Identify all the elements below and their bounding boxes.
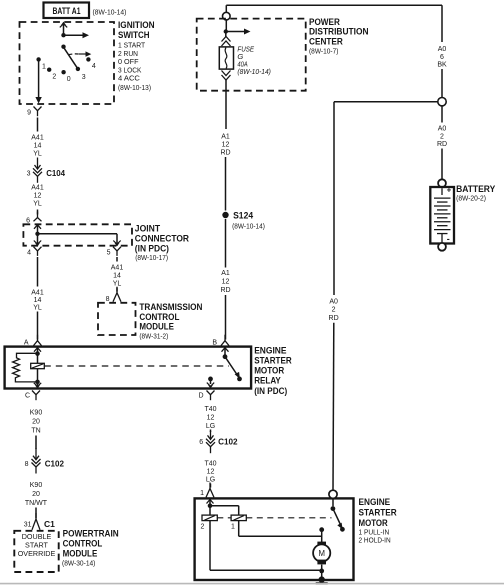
starter motor M1: [313, 544, 330, 561]
node PDC supply terminal circle: [223, 12, 231, 20]
pin 6 connector of joint connector: [26, 212, 41, 225]
page separator line: [0, 583, 504, 585]
wire label K90 20 TN/WT: [25, 482, 48, 507]
svg-text:4 ACC: 4 ACC: [118, 74, 140, 83]
wire A41 segment below pin 5: [116, 257, 118, 262]
svg-text:A0: A0: [438, 126, 447, 133]
powertrain control module title text: [62, 528, 119, 567]
svg-text:CONNECTOR: CONNECTOR: [135, 234, 190, 244]
svg-text:C: C: [25, 393, 30, 400]
svg-text:TRANSMISSION: TRANSMISSION: [139, 302, 202, 312]
svg-text:POWERTRAIN: POWERTRAIN: [63, 528, 119, 538]
svg-text:T40: T40: [204, 461, 216, 468]
svg-text:20: 20: [32, 419, 40, 426]
wire starter pin 1 entry: [207, 500, 214, 504]
svg-text:K90: K90: [30, 410, 43, 417]
svg-text:(8W-10-14): (8W-10-14): [232, 221, 265, 230]
wire segment to relay pin A: [37, 312, 39, 340]
resistor R1 (relay coil suppression): [13, 353, 38, 382]
wire label A41 14 YL (upper): [31, 135, 44, 158]
svg-text:IGNITION: IGNITION: [118, 20, 155, 30]
engine starter motor title text: [359, 497, 398, 545]
svg-text:C102: C102: [218, 436, 238, 446]
wire label T40 12 LG (upper): [204, 406, 216, 430]
svg-text:S124: S124: [233, 210, 253, 220]
label (8W-10-14) for BATT A1: [93, 8, 127, 17]
svg-text:C104: C104: [46, 168, 65, 178]
svg-text:TN: TN: [31, 428, 40, 435]
svg-text:(IN PDC): (IN PDC): [135, 244, 169, 254]
wire pull-in coil to motor: [239, 521, 322, 537]
wire A1 segment to splice: [225, 157, 227, 211]
pin 5 connector of joint connector: [107, 247, 121, 257]
svg-text:2: 2: [332, 307, 336, 314]
fuse G holder top chevrons: [222, 32, 231, 47]
pin 31 of powertrain control module: [24, 513, 55, 530]
pin D of starter relay: [198, 391, 214, 401]
svg-text:(IN PDC): (IN PDC): [254, 386, 287, 396]
svg-text:RD: RD: [220, 287, 230, 294]
wire PDC internal feed: [225, 20, 227, 32]
svg-text:ENGINE: ENGINE: [254, 346, 286, 356]
node ignition rotor pivot: [61, 45, 65, 49]
wire label A41 14 YL (left lower): [31, 290, 44, 312]
wire motor ground lead: [321, 565, 323, 578]
svg-text:CONTROL: CONTROL: [139, 312, 179, 322]
wire solenoid switch feed: [332, 498, 334, 506]
svg-text:A0: A0: [438, 46, 447, 53]
svg-text:DISTRIBUTION: DISTRIBUTION: [309, 26, 369, 36]
node starter motor feed contact: [319, 527, 324, 532]
wire A1 segment below fuse: [225, 80, 227, 129]
wire segment to PCM pin 31: [35, 508, 37, 519]
splice S124: [222, 210, 265, 230]
wire A0 2 RD long drop to starter: [333, 102, 335, 295]
svg-text:JOINT: JOINT: [135, 223, 161, 233]
svg-text:RD: RD: [437, 141, 447, 148]
relay switch blade: [225, 357, 240, 379]
svg-text:ENGINE: ENGINE: [359, 497, 391, 507]
engine starter motor relay box: [5, 347, 252, 389]
battery positive terminal circle: [438, 179, 446, 187]
svg-text:(8W-20-2): (8W-20-2): [456, 194, 486, 203]
connector C104: [27, 158, 66, 183]
connector C102 (middle): [199, 431, 238, 453]
svg-text:12: 12: [207, 415, 215, 422]
svg-text:1: 1: [200, 490, 204, 497]
svg-text:YL: YL: [33, 151, 42, 158]
wire relay pin C exit arrow: [34, 382, 41, 389]
wire joint connector branch to pin 4: [34, 234, 41, 247]
svg-text:BK: BK: [437, 62, 447, 69]
starter motor brush (bottom): [317, 560, 326, 565]
pin 8 of transmission control module: [106, 287, 121, 303]
battery B1 case: [430, 187, 454, 244]
wire ignition feed branch arrow right: [64, 32, 90, 38]
svg-text:2: 2: [52, 74, 56, 81]
node relay pin D contact: [208, 377, 213, 382]
svg-text:A1: A1: [221, 134, 230, 141]
wire label A41 14 YL (to TCM): [111, 265, 124, 288]
wire battery positive lead: [441, 106, 443, 179]
powertrain control module dashed box: [14, 531, 58, 572]
svg-text:BATT A1: BATT A1: [53, 6, 82, 17]
battery negative terminal circle: [438, 243, 446, 251]
svg-text:LG: LG: [206, 423, 215, 430]
battery title text: [456, 184, 496, 203]
node motor ground junction: [319, 569, 324, 574]
svg-text:(8W-31-2): (8W-31-2): [139, 331, 168, 340]
engine starter motor box: [195, 498, 354, 580]
svg-text:14: 14: [34, 143, 42, 150]
svg-text:A41: A41: [31, 185, 44, 192]
svg-text:MODULE: MODULE: [139, 322, 174, 332]
wire label A41 12 YL: [31, 185, 44, 208]
wire A0 2 RD continues to starter: [332, 323, 335, 491]
wire battery feed top horizontal: [226, 4, 442, 6]
fuse G label text: [237, 44, 271, 76]
wire label A1 12 RD (lower): [220, 270, 230, 294]
joint connector dashed box: [23, 224, 132, 245]
svg-text:+: +: [447, 186, 452, 195]
svg-text:K90: K90: [30, 482, 43, 489]
power distribution center title text: [309, 17, 369, 56]
transmission control module title text: [139, 302, 202, 341]
node relay blade rest contact: [237, 377, 242, 382]
svg-text:12: 12: [207, 469, 215, 476]
svg-text:CONTROL: CONTROL: [63, 538, 103, 548]
pin A of starter relay: [24, 335, 42, 347]
svg-text:OVERRIDE: OVERRIDE: [18, 549, 56, 558]
starter relay title text: [254, 346, 292, 397]
svg-text:CENTER: CENTER: [309, 36, 343, 46]
svg-text:(8W-10-7): (8W-10-7): [309, 47, 339, 56]
joint connector title text: [135, 223, 190, 262]
svg-text:4: 4: [92, 63, 96, 70]
node starter solenoid contact circle: [329, 490, 337, 498]
starter motor brush (top): [317, 542, 326, 547]
node joint connector junction: [35, 232, 39, 236]
ignition contact 2 (RUN): [47, 68, 56, 81]
svg-text:8: 8: [106, 296, 110, 303]
svg-text:12: 12: [222, 279, 230, 286]
node PDC feed junction: [224, 29, 228, 33]
wire motor feed: [321, 530, 323, 542]
wire ignition feed arrow to BATT A1: [60, 22, 67, 36]
wire PDC feed corner drop: [225, 5, 227, 12]
wire label A0 6 BK: [437, 46, 447, 69]
svg-text:14: 14: [113, 273, 121, 280]
node solenoid switch pivot: [331, 506, 336, 511]
svg-text:5: 5: [107, 250, 111, 257]
svg-text:C1: C1: [44, 519, 55, 529]
svg-text:(8W-30-14): (8W-30-14): [62, 559, 96, 568]
pin 4 connector of joint connector: [27, 247, 41, 257]
pin 1 of engine starter motor: [200, 483, 214, 498]
svg-text:A0: A0: [329, 298, 338, 305]
svg-text:M: M: [318, 549, 325, 558]
svg-text:9: 9: [27, 110, 31, 117]
svg-text:YL: YL: [113, 281, 122, 288]
starter solenoid switch blade: [333, 509, 343, 530]
svg-text:MOTOR: MOTOR: [359, 518, 389, 528]
ground G1 of starter motor: [316, 576, 328, 584]
wire K90 segment: [35, 436, 37, 450]
node relay coil bottom junction: [35, 380, 40, 385]
svg-text:0: 0: [67, 76, 71, 83]
wire relay pin A entry: [34, 347, 41, 353]
wire A1 segment below splice: [225, 219, 227, 268]
wire A41 segment below pin 9: [37, 118, 39, 132]
wire T40 segment: [210, 430, 212, 433]
wire PDC branch arrow right: [226, 29, 251, 35]
wire label A1 12 RD (upper): [220, 134, 230, 157]
wire branch to pull-in coil: [210, 506, 239, 515]
svg-text:(8W-10-17): (8W-10-17): [135, 253, 168, 262]
relay linkage dashed line: [44, 365, 229, 367]
wire A41 segment below pin 4: [37, 257, 39, 287]
svg-text:12: 12: [34, 193, 42, 200]
ignition contact 1 (START): [36, 57, 46, 70]
svg-text:RD: RD: [329, 315, 339, 322]
ignition contact 3 (LOCK): [76, 67, 86, 81]
hold-in coil 2: [201, 506, 218, 531]
ignition contact 0 (OFF): [61, 70, 70, 83]
wire relay pin D exit arrow: [207, 379, 214, 389]
ignition switch title text: [118, 20, 155, 92]
svg-text:6: 6: [440, 54, 444, 61]
svg-text:RD: RD: [220, 150, 230, 157]
svg-text:8: 8: [25, 461, 29, 468]
power distribution center dashed box: [197, 19, 306, 91]
wire A0 6 BK drop at right: [441, 5, 443, 42]
svg-text:4: 4: [27, 250, 31, 257]
wire relay pin B entry: [222, 347, 229, 357]
relay coil K1: [31, 354, 45, 382]
svg-text:A1: A1: [221, 270, 230, 277]
wire segment to joint connector: [37, 210, 39, 215]
svg-text:D: D: [198, 393, 203, 400]
wire segment above battery junction: [441, 69, 443, 98]
node relay coil top junction: [35, 351, 40, 356]
svg-text:3: 3: [27, 171, 31, 178]
svg-text:MOTOR: MOTOR: [254, 366, 284, 376]
svg-text:SWITCH: SWITCH: [118, 30, 150, 40]
battery polarity marks: [447, 186, 452, 244]
wire label T40 12 LG (lower): [204, 461, 216, 484]
svg-text:2 HOLD-IN: 2 HOLD-IN: [359, 535, 391, 544]
node relay common contact: [223, 354, 228, 359]
wire segment to starter pin 1: [210, 484, 212, 488]
pin B of starter relay: [212, 335, 229, 347]
svg-text:6: 6: [199, 439, 203, 446]
svg-text:1: 1: [42, 63, 46, 70]
ignition switch S1 dashed box: [20, 22, 115, 104]
connector C102 (left): [25, 448, 65, 474]
svg-text:20: 20: [32, 491, 40, 498]
wire ignition START output arrow down: [35, 62, 41, 104]
wire segment to TCM pin 8: [116, 288, 118, 292]
svg-text:31: 31: [24, 522, 32, 529]
svg-text:STARTER: STARTER: [359, 507, 398, 517]
svg-text:POWER: POWER: [309, 17, 340, 27]
svg-text:C102: C102: [45, 458, 65, 468]
fuse G 40A body: [219, 47, 233, 69]
svg-text:LG: LG: [206, 477, 215, 484]
pin 9 connector of ignition switch: [27, 107, 41, 117]
battery plus terminal lead: [441, 188, 443, 195]
wire starter feed: [209, 499, 211, 506]
svg-text:14: 14: [34, 297, 42, 304]
ignition rotation dashed arrow: [69, 51, 91, 56]
fuse G holder bottom chevrons: [222, 71, 231, 81]
node BATT A1 box: [44, 3, 90, 19]
wire label A0 2 RD (starter feed): [329, 298, 339, 322]
svg-text:TN/WT: TN/WT: [25, 500, 48, 507]
wire A0 2 RD horizontal to starter drop: [334, 101, 438, 103]
pull-in coil 1: [231, 515, 246, 530]
svg-text:1: 1: [231, 524, 235, 531]
svg-text:A41: A41: [111, 265, 124, 272]
wire segment to relay pin B: [225, 295, 227, 340]
svg-text:2: 2: [440, 133, 444, 140]
svg-text:T40: T40: [204, 406, 216, 413]
node ignition feed junction: [61, 33, 65, 37]
node starter coil junction: [208, 503, 213, 508]
transmission control module dashed box: [98, 303, 136, 335]
svg-text:-: -: [447, 234, 450, 244]
svg-text:RELAY: RELAY: [254, 376, 281, 386]
battery minus lead: [441, 234, 443, 243]
svg-text:STARTER: STARTER: [254, 355, 292, 365]
ignition contact 4 (ACC): [86, 57, 96, 70]
svg-text:MODULE: MODULE: [63, 549, 98, 559]
svg-text:(8W-10-14): (8W-10-14): [237, 67, 271, 76]
svg-text:2: 2: [201, 524, 205, 531]
svg-text:12: 12: [222, 142, 230, 149]
node solenoid blade contact: [340, 527, 345, 532]
pin C of starter relay: [25, 391, 40, 401]
wire joint connector entry arrow: [34, 224, 41, 234]
node battery positive junction circle: [438, 98, 446, 106]
PCM double start override text: [18, 532, 56, 558]
svg-text:YL: YL: [33, 305, 42, 312]
svg-text:YL: YL: [33, 201, 42, 208]
svg-text:A41: A41: [31, 290, 44, 297]
battery cell plates: [434, 198, 451, 233]
wire hold-in coil return: [210, 521, 322, 571]
wire label K90 20 TN: [30, 410, 43, 435]
wire label A0 2 RD (battery side): [437, 126, 447, 149]
starter linkage dashed line: [217, 517, 331, 519]
svg-text:3: 3: [82, 74, 86, 81]
ignition switch rotor blade: [63, 47, 77, 68]
svg-text:A41: A41: [31, 135, 44, 142]
wire joint connector branch to pin 5: [38, 234, 121, 247]
svg-text:(8W-10-13): (8W-10-13): [118, 83, 151, 92]
svg-text:(8W-10-14): (8W-10-14): [93, 8, 127, 17]
